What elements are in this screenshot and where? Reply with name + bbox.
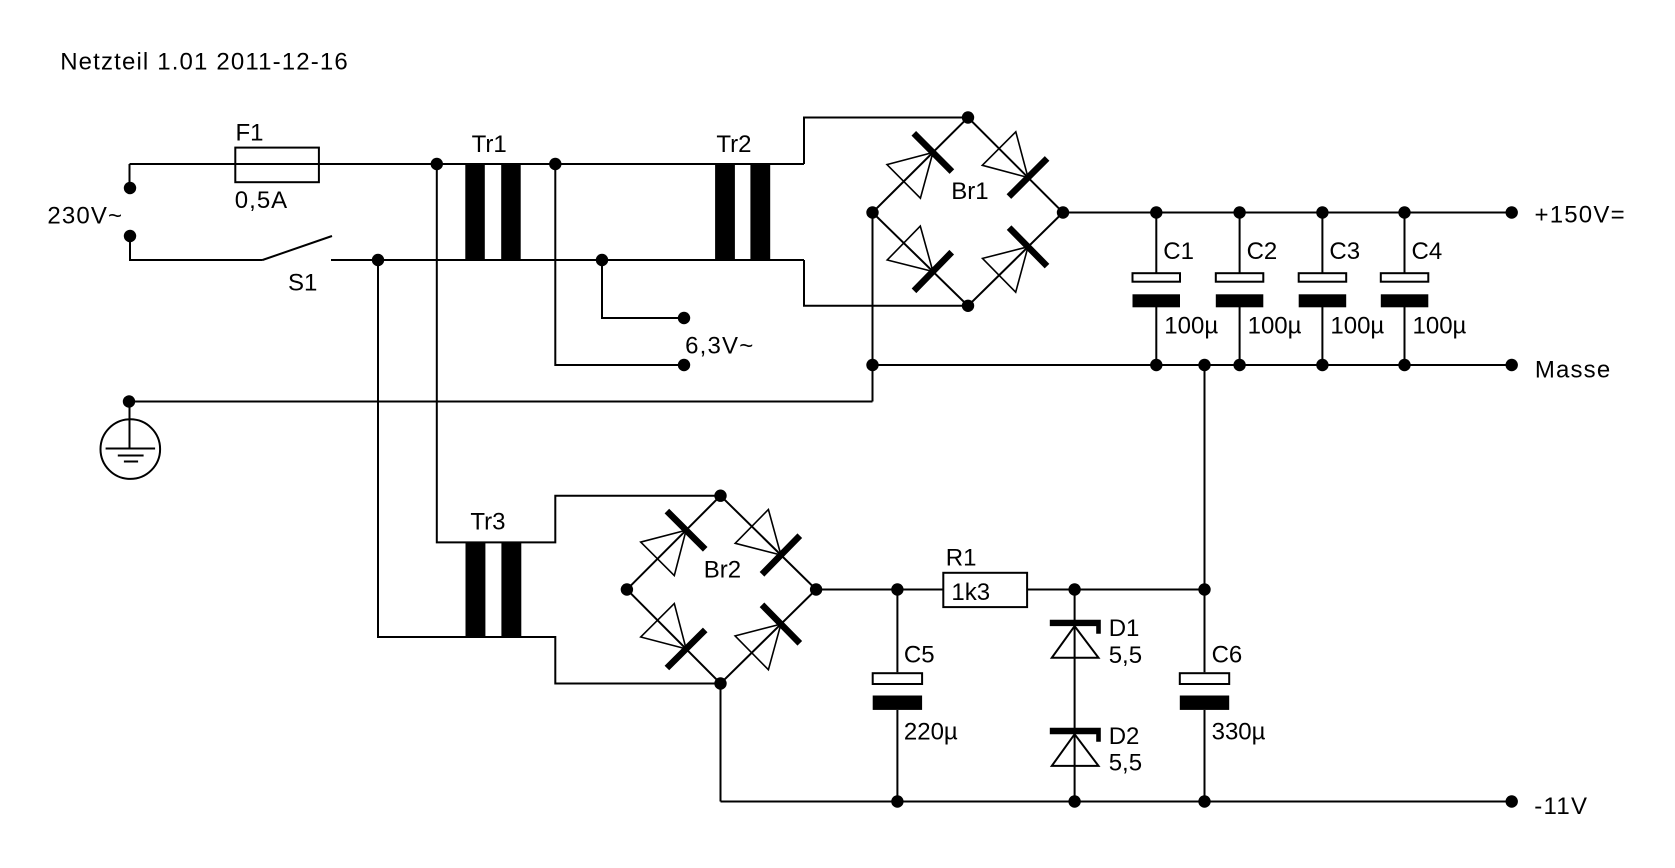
svg-text:R1: R1: [946, 545, 977, 572]
svg-text:C4: C4: [1412, 238, 1443, 265]
svg-text:D1: D1: [1109, 615, 1140, 642]
svg-text:Tr3: Tr3: [470, 509, 505, 536]
svg-text:330µ: 330µ: [1212, 719, 1266, 746]
svg-text:6,3V~: 6,3V~: [685, 332, 754, 359]
svg-text:100µ: 100µ: [1248, 313, 1302, 340]
svg-text:5,5: 5,5: [1109, 750, 1142, 777]
svg-text:230V~: 230V~: [47, 203, 123, 230]
svg-text:C6: C6: [1212, 641, 1243, 668]
svg-text:Br1: Br1: [951, 178, 988, 205]
svg-text:100µ: 100µ: [1164, 313, 1218, 340]
svg-text:Tr2: Tr2: [716, 131, 751, 158]
svg-text:Masse: Masse: [1535, 356, 1611, 383]
svg-text:Tr1: Tr1: [472, 131, 507, 158]
svg-text:C3: C3: [1329, 238, 1360, 265]
svg-text:S1: S1: [288, 270, 317, 297]
svg-text:F1: F1: [236, 120, 264, 147]
svg-text:0,5A: 0,5A: [235, 187, 288, 214]
svg-text:Netzteil 1.01 2011-12-16: Netzteil 1.01 2011-12-16: [60, 48, 349, 75]
svg-text:C1: C1: [1163, 238, 1194, 265]
svg-text:100µ: 100µ: [1413, 313, 1467, 340]
svg-text:+150V=: +150V=: [1535, 202, 1626, 229]
svg-text:100µ: 100µ: [1330, 313, 1384, 340]
svg-text:1k3: 1k3: [951, 579, 990, 606]
svg-text:D2: D2: [1109, 723, 1140, 750]
svg-text:5,5: 5,5: [1109, 642, 1142, 669]
svg-text:220µ: 220µ: [904, 719, 958, 746]
svg-text:Br2: Br2: [704, 557, 741, 584]
svg-text:-11V: -11V: [1534, 793, 1588, 820]
svg-text:C5: C5: [904, 641, 935, 668]
svg-text:C2: C2: [1247, 238, 1278, 265]
